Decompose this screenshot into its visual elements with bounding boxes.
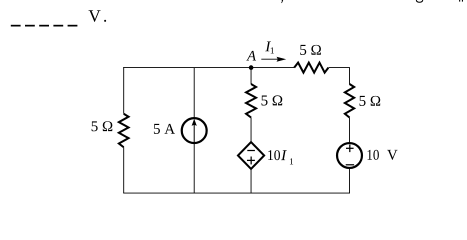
- wire left branch bottom: [123, 147, 125, 193]
- wire right branch middle: [349, 118, 351, 143]
- cropped text remnant comma: [281, 0, 283, 3]
- label node A: [246, 51, 256, 61]
- blank answer line dashes: [11, 25, 78, 27]
- current source 5A circle: [182, 118, 207, 143]
- label 10I1: [268, 150, 280, 160]
- label 5 ohm right: [360, 96, 381, 106]
- cropped text remnant letter legs: [459, 0, 460, 2]
- dependent source minus sign: [247, 150, 255, 152]
- wire left branch top: [123, 67, 125, 114]
- resistor R left 5 ohm vertical: [119, 114, 129, 148]
- wire right branch bottom: [349, 169, 351, 194]
- label 5 ohm top: [300, 45, 321, 55]
- resistor R top 5 ohm horizontal: [294, 63, 328, 73]
- wire middle branch to dependent source: [250, 118, 252, 143]
- voltage source plus sign: [346, 147, 354, 149]
- wire middle branch below node A: [250, 68, 252, 84]
- wire middle branch bottom: [250, 169, 252, 193]
- arrow I1: [261, 58, 278, 60]
- cropped text remnant g descender loop: [416, 0, 423, 2]
- wire top horizontal: [123, 67, 294, 69]
- voltage source minus sign: [346, 164, 354, 166]
- wire top right segment: [329, 68, 350, 85]
- node A dot: [249, 65, 254, 70]
- wire bottom horizontal: [123, 192, 350, 194]
- label 5 ohm left: [92, 121, 113, 131]
- unit text V.: [89, 10, 101, 22]
- dependent source plus sign: [247, 159, 255, 161]
- label 5 A: [154, 124, 175, 134]
- current source arrow: [193, 124, 195, 143]
- resistor R right 5 ohm vertical: [345, 84, 354, 117]
- voltage source 10V circle: [337, 143, 362, 168]
- wire current source branch top: [193, 68, 195, 118]
- label I1 current: [265, 41, 271, 51]
- resistor R middle 5 ohm vertical: [246, 84, 256, 117]
- label 10 V: [368, 150, 379, 160]
- dependent source 10I1 diamond: [238, 142, 264, 169]
- label 5 ohm middle: [262, 95, 283, 105]
- wire current source branch bottom: [193, 144, 195, 193]
